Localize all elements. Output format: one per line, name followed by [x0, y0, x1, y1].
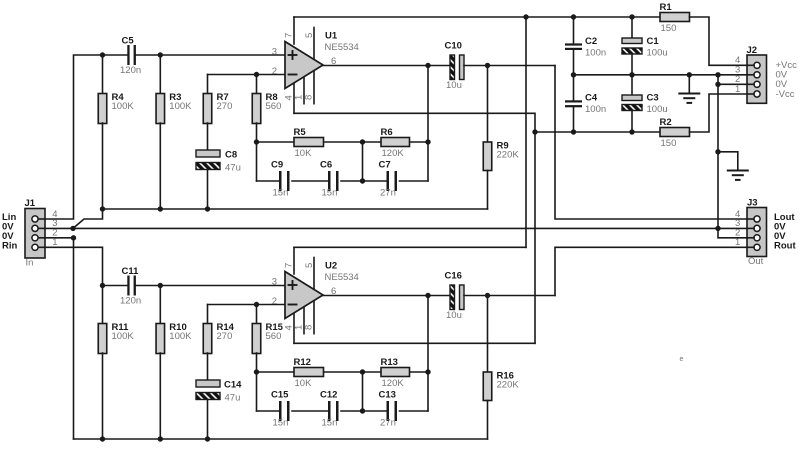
svg-text:10K: 10K	[295, 378, 313, 389]
wire Rin row to C11	[103, 285, 129, 287]
svg-text:100K: 100K	[169, 101, 192, 112]
svg-text:7: 7	[284, 33, 295, 38]
svg-text:C1: C1	[647, 36, 660, 47]
op-amp U2 NE5534	[285, 261, 359, 319]
ground symbol near J3	[728, 171, 748, 180]
wire R9 bottom stem	[487, 171, 489, 210]
node C1 top junction	[629, 14, 634, 19]
node ground branch junction	[715, 149, 720, 154]
wire C10 output to Lout drop	[464, 65, 555, 67]
wire feedback vertical output to R6 right	[427, 66, 429, 143]
node -Vcc rail / U2 V- junction	[532, 129, 537, 134]
resistor R10 100K	[156, 322, 192, 354]
svg-text:R1: R1	[660, 2, 673, 13]
node bottom rail R11 junction	[100, 436, 105, 441]
svg-text:47u: 47u	[225, 393, 241, 404]
svg-text:15n: 15n	[273, 418, 289, 429]
svg-text:NE5534: NE5534	[325, 272, 359, 283]
svg-text:100K: 100K	[169, 331, 192, 342]
svg-text:10u: 10u	[446, 310, 462, 321]
node feedback tap on U1 output	[425, 63, 430, 68]
capacitor C10 10u output coupling	[445, 41, 465, 92]
svg-text:120K: 120K	[382, 148, 405, 159]
svg-text:NE5534: NE5534	[325, 42, 359, 53]
pin numbers J3: 4 3 2 1	[735, 209, 740, 248]
resistor R6 120K	[381, 127, 410, 159]
wire C15 to C12	[292, 410, 328, 412]
wire 0V rail jog down to bus	[73, 209, 103, 228]
svg-text:7: 7	[284, 263, 295, 268]
pin labels U1: 3 2 6 7 5 4 1 8	[272, 33, 337, 101]
wire U2 pin 7 stub to +Vcc rail	[293, 247, 295, 274]
svg-text:J2: J2	[747, 45, 758, 56]
svg-text:15n: 15n	[273, 188, 289, 199]
wire U2 pin 4 rail to -Vcc vertical	[294, 342, 535, 344]
svg-text:2: 2	[272, 66, 277, 77]
svg-text:560: 560	[266, 101, 282, 112]
wire C1 bottom stem	[631, 54, 633, 75]
wire +Vcc vertical down to U2 pin 7 rail	[525, 17, 527, 247]
resistor R12 10K	[294, 357, 324, 389]
capacitor C3 100u electrolytic	[622, 93, 668, 116]
wire C14 bottom stem	[207, 400, 209, 440]
wire U1 pin 7 V+ stub to +Vcc rail	[293, 17, 295, 44]
node J1 pin 2 junction	[71, 235, 76, 240]
svg-text:C9: C9	[271, 160, 283, 171]
wire ground stem	[688, 75, 690, 94]
svg-text:100K: 100K	[112, 101, 135, 112]
op-amp U1 NE5534	[285, 31, 359, 89]
svg-text:270: 270	[217, 101, 233, 112]
node 0V rail / R4 junction	[100, 206, 105, 211]
wire Lout from C10 down to J3 pin 4	[555, 66, 747, 220]
wire Lin input from J1 pin 4 up to C5 row	[45, 55, 128, 219]
resistor R11 100K	[98, 322, 134, 354]
wire R7 to C8	[207, 123, 209, 150]
resistor R14 270	[203, 322, 234, 354]
wire R12 to R13	[324, 371, 382, 373]
wire R15 bottom to feedback node	[256, 353, 258, 372]
wire C4 bottom stem	[573, 107, 575, 132]
wire R11 top stem	[102, 286, 104, 324]
wire cap row left segment	[257, 180, 280, 182]
resistor R8 560	[252, 92, 281, 124]
wire C7 right segment	[400, 180, 429, 182]
svg-text:C3: C3	[647, 93, 659, 104]
wire C1 top stem	[631, 17, 633, 38]
svg-text:C7: C7	[379, 160, 391, 171]
wire top channel 0V rail	[103, 208, 488, 210]
svg-text:120n: 120n	[120, 65, 141, 76]
wire U2 pin 4 stub	[293, 310, 295, 343]
svg-text:C13: C13	[379, 390, 396, 401]
wire C4 top stem	[573, 75, 575, 101]
svg-text:120K: 120K	[382, 378, 405, 389]
wire 0V supply rail to J2 pin 3	[574, 74, 748, 76]
svg-text:1: 1	[52, 237, 57, 248]
wire R15 top stem	[256, 305, 258, 324]
wire R6 to feedback vertical	[410, 141, 429, 143]
svg-text:C12: C12	[320, 390, 337, 401]
node +Vcc tap for U2	[523, 14, 528, 19]
svg-text:3: 3	[272, 276, 277, 287]
svg-text:8: 8	[304, 95, 315, 100]
wire C3 bottom stem	[631, 111, 633, 133]
node ground tap	[687, 72, 692, 77]
wire R11 bottom stem	[102, 353, 104, 439]
svg-text:C11: C11	[122, 266, 140, 277]
svg-text:3: 3	[272, 46, 277, 57]
wire C2 top stem	[573, 17, 575, 43]
node junction R3 top on input row	[158, 52, 163, 57]
wire R16 top stem	[487, 296, 489, 373]
capacitor C4 100n supply decoupling	[565, 93, 606, 116]
wire R10 bottom stem	[159, 353, 161, 439]
wire U2 pin 2 (- input) row	[208, 304, 286, 306]
node bottom rail C14 junction	[205, 436, 210, 441]
node C3 bottom junction	[629, 129, 634, 134]
wire R8 bottom to feedback node	[256, 123, 258, 142]
wire inverting node to R12	[257, 371, 295, 373]
svg-text:C6: C6	[320, 160, 332, 171]
svg-text:U1: U1	[325, 31, 338, 42]
wire R16 bottom stem	[487, 401, 489, 440]
wire U1 pin 4 V- stub	[293, 80, 295, 113]
node bottom cap row junction	[360, 408, 365, 413]
capacitor C14 47u electrolytic	[196, 380, 242, 404]
wire R13 to feedback vertical	[410, 371, 429, 373]
node R12-R13 junction	[360, 369, 365, 374]
node feedback tap on U2 output	[425, 293, 430, 298]
wire R6 right down to C7	[427, 142, 429, 181]
wire bottom channel 0V rail	[74, 438, 488, 440]
svg-text:In: In	[26, 258, 34, 269]
capacitor C16 10u output coupling	[445, 271, 465, 322]
wire C8 bottom to 0V rail	[207, 170, 209, 210]
node R6 right junction	[425, 139, 430, 144]
wire R2 to J2 pin 1 -Vcc	[690, 94, 748, 132]
node J3 0V junction	[715, 226, 720, 231]
svg-text:J3: J3	[747, 198, 758, 209]
wire C5 to U1 pin 3 (+ input), node row A	[135, 54, 285, 56]
wire U2 pin 5 stub	[313, 258, 315, 290]
wire R4 bottom stem to 0V rail	[102, 123, 104, 209]
node 0V bus junction at J1	[70, 226, 75, 231]
node 0V vertical tap	[715, 72, 720, 77]
wire 0V vertical from supply to output bus	[717, 75, 719, 229]
wire C3 top stem	[631, 75, 633, 95]
wire U1 output pin 6 to C10	[323, 65, 450, 67]
node inverting feedback node	[254, 139, 259, 144]
wire bus to J3 pin 3	[718, 227, 747, 229]
wire R9 top stem	[487, 66, 489, 143]
capacitor C13 27n	[379, 390, 398, 429]
wire C13 right segment	[400, 410, 429, 412]
wire R7 top stem	[207, 75, 209, 94]
resistor R7 270	[203, 92, 232, 124]
resistor R1 150	[660, 2, 690, 34]
connector J1 input header	[25, 198, 46, 269]
svg-text:R5: R5	[294, 127, 307, 138]
resistor R5 10K	[294, 127, 324, 159]
capacitor C6 15n	[320, 160, 339, 199]
svg-text:e: e	[680, 356, 684, 363]
wire Rout from C16 up to J3 pin 1	[555, 247, 747, 295]
capacitor C7 27n	[379, 160, 398, 199]
wire -Vcc rail	[535, 131, 660, 133]
node junction R8 top on inverting input	[254, 72, 259, 77]
svg-text:2: 2	[272, 296, 277, 307]
wire R10 top stem	[159, 286, 161, 324]
wire Rin from J1 pin 1 down to C11 row	[45, 247, 103, 285]
wire J2 pin 2 0V	[718, 83, 747, 85]
connector J2 power header	[747, 45, 767, 103]
svg-text:C2: C2	[585, 36, 597, 47]
wire 0V bus from J1 pin 3 to J3	[45, 227, 718, 229]
resistor R16 220K	[483, 370, 519, 400]
node R11 top junction	[100, 283, 105, 288]
capacitor C9 15n	[271, 160, 290, 199]
node C4 bottom junction	[571, 129, 576, 134]
svg-text:Out: Out	[748, 256, 764, 267]
wire C9 to C6	[292, 180, 328, 182]
wire bottom cap row left segment	[257, 410, 280, 412]
wire U2 pin 1 stub	[303, 305, 305, 334]
svg-text:Rout: Rout	[774, 241, 796, 252]
svg-text:100u: 100u	[647, 48, 668, 59]
svg-text:220K: 220K	[497, 380, 520, 391]
svg-text:15n: 15n	[322, 188, 338, 199]
svg-text:150: 150	[661, 138, 677, 149]
capacitor C2 100n supply decoupling	[565, 36, 606, 59]
node R5-R6 junction	[360, 139, 365, 144]
node J2 pin 2 junction	[715, 82, 720, 87]
resistor R9 220K	[483, 140, 519, 170]
svg-text:100K: 100K	[112, 331, 135, 342]
svg-text:C5: C5	[122, 36, 135, 47]
wire R14 top stem	[207, 305, 209, 324]
svg-text:C16: C16	[445, 271, 462, 282]
svg-text:C10: C10	[445, 41, 462, 52]
node C2 top junction	[571, 14, 576, 19]
wire C12 to C13 with center tap	[341, 410, 386, 412]
wire 0V vertical to bottom rail	[73, 238, 75, 439]
resistor R3 100K	[156, 92, 192, 124]
wire branch to lower ground	[718, 152, 738, 171]
wire R3 top stem	[159, 55, 161, 94]
wire U1 pin 5 stub	[313, 28, 315, 60]
svg-text:C8: C8	[225, 150, 237, 161]
svg-text:27n: 27n	[380, 188, 396, 199]
capacitor C5 120n input coupling	[120, 36, 141, 77]
svg-text:R2: R2	[660, 117, 672, 128]
svg-text:560: 560	[266, 331, 282, 342]
capacitor C1 100u electrolytic	[622, 36, 668, 59]
svg-text:1: 1	[735, 237, 740, 248]
svg-text:27n: 27n	[380, 418, 396, 429]
svg-text:100n: 100n	[585, 104, 606, 115]
svg-text:R6: R6	[381, 127, 393, 138]
svg-text:8: 8	[304, 325, 315, 330]
wire C11 to U2 pin 3 (+ input)	[135, 285, 285, 287]
capacitor C11 120n input coupling	[120, 266, 141, 307]
svg-text:Rin: Rin	[2, 241, 18, 252]
wire R3 bottom stem to 0V rail	[159, 123, 161, 209]
node 0V rail / R3 junction	[158, 206, 163, 211]
wire U1 pin 1 stub	[303, 75, 305, 104]
svg-text:10u: 10u	[446, 80, 462, 91]
capacitor C15 15n	[271, 390, 290, 429]
wire R12-R13 node down to cap row	[362, 372, 364, 411]
node cap row junction	[360, 178, 365, 183]
connector J3 output header	[747, 198, 767, 268]
labels Lout 0V 0V Rout	[774, 212, 796, 251]
wire feedback node down to C15 row	[256, 372, 258, 411]
wire R1 to J2 pin 4 +Vcc	[690, 17, 748, 65]
wire C6 to C7 with center tap	[341, 180, 386, 182]
svg-text:47u: 47u	[225, 163, 241, 174]
wire C16 output to Rout riser	[464, 295, 555, 297]
svg-text:C15: C15	[271, 390, 289, 401]
svg-text:J1: J1	[25, 198, 36, 209]
wire R8 top stem	[256, 75, 258, 94]
resistor R2 150	[660, 117, 690, 149]
wire +Vcc rail from U1 pin7 to R1	[294, 16, 660, 18]
node U2 inverting feedback node	[254, 369, 259, 374]
ground symbol near J2	[679, 94, 699, 103]
wire J1 pin 2 0V	[45, 237, 74, 239]
node R13 right junction	[425, 369, 430, 374]
node C1-C3 junction	[629, 72, 634, 77]
svg-text:150: 150	[661, 23, 677, 34]
svg-text:15n: 15n	[322, 418, 338, 429]
wire R13 right down to C13	[427, 372, 429, 411]
node R10 top junction	[158, 283, 163, 288]
capacitor C12 15n	[320, 390, 339, 429]
svg-text:5: 5	[304, 263, 315, 268]
resistor R13 120K	[381, 357, 410, 389]
node 0V rail / C8 junction	[205, 206, 210, 211]
wire C2 bottom stem	[573, 50, 575, 75]
pin numbers J1: 4 3 2 1	[52, 209, 57, 248]
pin numbers J2: 4 3 2 1	[735, 55, 740, 95]
node bottom rail R10 junction	[158, 436, 163, 441]
svg-text:C14: C14	[224, 380, 242, 391]
svg-text:R12: R12	[294, 357, 311, 368]
wire U1 pin 8 stub	[313, 69, 315, 104]
labels Lin 0V 0V Rin	[2, 212, 18, 251]
pin labels U2: 3 2 6 7 5 4 1 8	[272, 263, 337, 331]
svg-text:100u: 100u	[647, 104, 668, 115]
svg-text:R13: R13	[381, 357, 398, 368]
svg-text:U2: U2	[325, 261, 337, 272]
svg-text:5: 5	[304, 33, 315, 38]
wire -Vcc vertical down to U2 pin 4 rail	[534, 132, 536, 343]
wire R14 to C14	[207, 353, 209, 380]
wire U2 +Vcc rail	[294, 246, 526, 248]
wire R5 to R6	[324, 141, 382, 143]
wire J3 pin 2 0V link	[718, 228, 747, 237]
wire U1 pin 2 (- input) row	[208, 74, 286, 76]
node C2-C4 junction	[571, 72, 576, 77]
wire U2 output pin 6 to C16	[323, 295, 450, 297]
resistor R4 100K	[98, 92, 134, 124]
wire U1 pin 4 rail to -Vcc	[294, 113, 535, 132]
resistor R15 560	[252, 322, 283, 354]
wire R5-R6 node down to cap row	[362, 142, 364, 181]
wire U2 pin 8 stub	[313, 299, 315, 334]
capacitor C8 47u electrolytic	[196, 150, 241, 174]
svg-text:-Vcc: -Vcc	[776, 89, 795, 100]
svg-text:220K: 220K	[497, 150, 520, 161]
svg-text:C4: C4	[585, 93, 598, 104]
wire feedback vertical to R13 right	[427, 296, 429, 373]
node junction R4 top on input row	[100, 52, 105, 57]
svg-text:120n: 120n	[120, 296, 141, 307]
node junction R16 top tap	[485, 293, 490, 298]
node junction R9 top tap	[485, 63, 490, 68]
svg-text:100n: 100n	[585, 48, 606, 59]
labels +Vcc 0V 0V -Vcc	[776, 60, 798, 100]
wire feedback node down to C9 row	[256, 142, 258, 181]
svg-text:10K: 10K	[295, 148, 313, 159]
wire R4 top stem	[102, 55, 104, 94]
wire inverting node to R5	[257, 141, 295, 143]
svg-text:270: 270	[217, 331, 233, 342]
svg-text:1: 1	[735, 84, 740, 95]
node R15 top junction	[254, 302, 259, 307]
